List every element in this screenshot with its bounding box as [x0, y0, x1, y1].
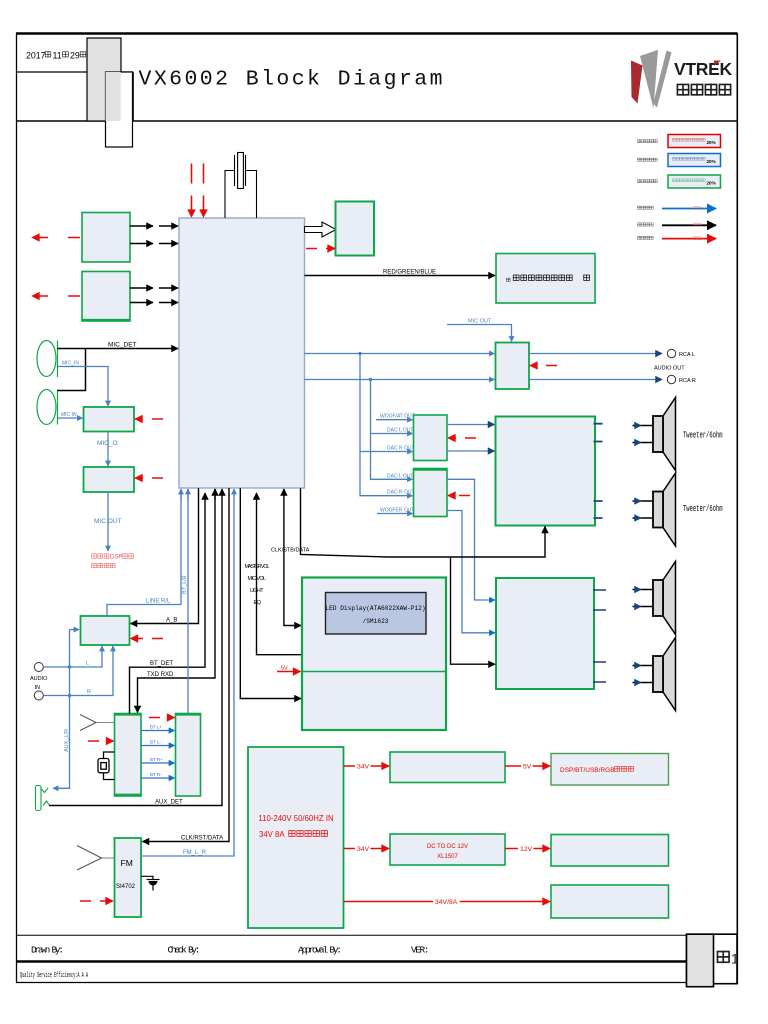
BT crystal [98, 752, 115, 780]
LCD display [326, 593, 427, 635]
left input box 2 [82, 272, 130, 322]
svg-text:IN: IN [35, 685, 41, 691]
svg-text:LED Display(ATA6022XAW-P12): LED Display(ATA6022XAW-P12) [325, 605, 425, 612]
svg-text:DAC R OUT: DAC R OUT [387, 490, 415, 496]
crystal X1 on top of main box [225, 153, 257, 219]
svg-text:20%: 20% [707, 181, 716, 186]
12V box [551, 835, 669, 867]
left input box 1 [82, 213, 130, 263]
5V supply box [390, 752, 505, 783]
svg-text:110-240V 50/60HZ IN: 110-240V 50/60HZ IN [258, 814, 333, 823]
svg-text:MIC OUT: MIC OUT [94, 518, 121, 525]
legend: standard module row [637, 180, 657, 183]
footer lines [16, 935, 687, 982]
amplifier box 1 [496, 417, 596, 526]
svg-text:CLK/STB/DATA: CLK/STB/DATA [271, 548, 310, 554]
keyboard wires to LED board [240, 488, 301, 699]
FM_L_R wire [141, 489, 234, 856]
svg-text:LINE R/L: LINE R/L [146, 599, 171, 605]
power supply board [248, 747, 344, 928]
svg-text:WOOF/AT OUT: WOOF/AT OUT [380, 414, 415, 420]
34V wire 1 [344, 765, 390, 767]
microphone 1 [37, 341, 58, 378]
date text 2017-11-29 [26, 51, 46, 61]
svg-text:DAC L OUT: DAC L OUT [387, 473, 413, 479]
svg-text:DC TO DC 12V: DC TO DC 12V [427, 844, 468, 850]
svg-text:FM_L_R: FM_L_R [183, 850, 207, 856]
legend: audio signal arrow [637, 206, 653, 209]
svg-text:RED/GREEN/BLUE: RED/GREEN/BLUE [383, 270, 436, 276]
aux trunk down to jack [70, 629, 80, 631]
svg-text:MIC_DET: MIC_DET [108, 342, 137, 349]
RCA output wires [529, 354, 662, 380]
svg-text:BT R+: BT R+ [150, 757, 163, 762]
svg-text:11: 11 [53, 51, 62, 61]
CLK/STB/DATA wire [301, 488, 496, 664]
svg-text:34V: 34V [357, 846, 370, 853]
svg-text:EQ: EQ [254, 600, 262, 606]
34V wire 2 [344, 848, 390, 850]
svg-text:BT R-: BT R- [150, 772, 162, 777]
footer texts [31, 945, 430, 956]
5V wire [505, 765, 550, 767]
svg-text:L: L [86, 661, 89, 667]
svg-text:29: 29 [70, 51, 80, 61]
main MCU box [179, 218, 305, 488]
svg-text:BT L+: BT L+ [150, 725, 162, 730]
DSP power box [551, 754, 669, 786]
lamp box [496, 254, 595, 304]
svg-text:VER:: VER: [411, 945, 430, 956]
MIC_DET wire [58, 348, 179, 350]
svg-text:Tweeter/6ohm: Tweeter/6ohm [683, 431, 723, 441]
BT_DET wire [130, 493, 206, 714]
speaker 1 [633, 398, 676, 471]
BT_L/R wire [187, 489, 189, 714]
svg-text:5V: 5V [281, 666, 288, 672]
12V wire [505, 848, 550, 850]
legend: data signal arrow [637, 223, 653, 226]
BT antenna [80, 715, 115, 731]
AUX_DET wire [49, 489, 222, 806]
svg-text:Approval By:: Approval By: [298, 945, 342, 956]
amplifier box 2 [496, 578, 594, 689]
microphone 2 [37, 390, 58, 425]
data arrows box1 to MCU [130, 226, 178, 303]
LINE box [81, 616, 130, 645]
DAC trunk wires [360, 354, 413, 514]
BT pair box [176, 714, 201, 797]
svg-text:MIC OUT: MIC OUT [468, 319, 492, 325]
RED/GREEN/BLUE wire to lamp box [305, 275, 496, 277]
svg-text:TXD RXD: TXD RXD [147, 672, 174, 678]
svg-text:LIGHT: LIGHT [250, 588, 264, 594]
LINE blue pin [180, 489, 182, 605]
svg-text:DSP/BT/USB/RGB: DSP/BT/USB/RGB [560, 767, 615, 774]
svg-text:/SM1623: /SM1623 [363, 618, 389, 625]
svg-text:34V: 34V [357, 764, 370, 771]
svg-text:RCA L: RCA L [679, 352, 695, 358]
A_B wire [131, 488, 199, 624]
svg-text:AUDIO: AUDIO [30, 676, 48, 682]
amp1 blue output stubs [594, 424, 603, 518]
svg-text:5V: 5V [523, 764, 532, 771]
svg-text:FM: FM [121, 858, 133, 868]
svg-text:20%: 20% [707, 159, 716, 164]
page cell [687, 934, 738, 984]
svg-text:BT_L/R: BT_L/R [182, 575, 188, 594]
logo chinese 巨大集团 [677, 84, 730, 94]
speaker 3 [633, 562, 676, 635]
MIC_IN wire [58, 367, 109, 407]
svg-text:BT_DET: BT_DET [150, 661, 173, 667]
CLK/RST/DATA wire [143, 488, 230, 842]
svg-text:DAC L OUT: DAC L OUT [387, 427, 413, 433]
svg-text:R: R [87, 689, 91, 695]
legend: new module row [637, 140, 657, 143]
FM bypass capacitor [141, 876, 160, 890]
svg-text:SI4702: SI4702 [116, 884, 136, 890]
LINE R/L wire [107, 605, 181, 617]
FM antenna [77, 846, 115, 871]
speaker 4 [633, 638, 676, 711]
BT module box [115, 714, 142, 797]
DAC1 outputs to amp1 [447, 425, 495, 452]
svg-text:Drawn By:: Drawn By: [31, 945, 64, 956]
5V red arrow into LED board [277, 671, 301, 673]
svg-text:MIC_IN: MIC_IN [62, 361, 79, 367]
svg-text:MIC IN: MIC IN [61, 412, 77, 418]
LED display board [302, 578, 446, 731]
svg-text:VTREK: VTREK [674, 59, 732, 79]
svg-text:RCA R: RCA R [679, 378, 696, 384]
svg-text:DAC R OUT: DAC R OUT [387, 446, 415, 452]
TXD RXD wire [138, 489, 216, 713]
legend: developing module row [637, 158, 657, 161]
red note text [92, 554, 109, 558]
audio in wires L and R [43, 646, 113, 696]
svg-text:1: 1 [731, 951, 739, 967]
MIC OUT wire into mixer [447, 325, 512, 342]
svg-text:Check By:: Check By: [168, 945, 201, 956]
svg-text:12V: 12V [520, 846, 533, 853]
svg-text:Tweeter/6ohm: Tweeter/6ohm [683, 504, 723, 514]
svg-text:BT L-: BT L- [150, 740, 161, 745]
mic preamp box 1 [84, 407, 135, 432]
FM module box [115, 838, 142, 917]
svg-text:2017: 2017 [26, 51, 46, 61]
svg-text:20%: 20% [707, 140, 716, 145]
svg-text:AUX_DET: AUX_DET [155, 800, 183, 806]
hollow arrow to green box [305, 222, 337, 237]
svg-text:DSP: DSP [110, 555, 122, 561]
legend: power signal arrow [637, 236, 653, 239]
DAC2 outputs down to amp2 [447, 479, 495, 633]
svg-text:MIC VOL: MIC VOL [248, 576, 267, 582]
mixer box [496, 343, 530, 390]
DC-DC box [390, 834, 505, 865]
VTREK logo mark [631, 50, 672, 109]
red dashed arrows out left [32, 238, 80, 297]
mic preamp box 2 [84, 467, 135, 492]
svg-text:MIC_O: MIC_O [97, 440, 118, 447]
svg-text:Quality Service Efficiency:A A: Quality Service Efficiency:A A A [20, 972, 88, 980]
DAC box 2 [414, 469, 448, 517]
title block overlap rects [87, 38, 121, 121]
svg-text:XL1507: XL1507 [437, 854, 458, 860]
svg-text:A_B: A_B [166, 618, 177, 624]
34V/8A wire [344, 901, 551, 903]
BT audio arrows [141, 731, 175, 779]
FM red dashed arrow [80, 900, 113, 902]
svg-text:WOOFER OUT: WOOFER OUT [380, 508, 414, 514]
headphone jack [36, 786, 50, 811]
AUDIO IN jacks [34, 663, 43, 672]
svg-text:34V/8A: 34V/8A [435, 899, 458, 906]
svg-text:34V 8A: 34V 8A [259, 830, 285, 839]
svg-text:MASTER VOL: MASTER VOL [245, 564, 270, 570]
audio wires MCU to mixer [305, 354, 495, 380]
red dashed arrows into main box top [192, 164, 204, 218]
34V box [551, 885, 669, 918]
RCA jacks [667, 349, 675, 357]
speaker 2 [633, 473, 676, 546]
svg-text:AUDIO OUT: AUDIO OUT [654, 366, 685, 372]
green box top right [336, 202, 375, 256]
DAC box 1 [414, 415, 448, 461]
svg-text:CLK/RST/DATA: CLK/RST/DATA [181, 836, 223, 842]
svg-text:AUX_L/R: AUX_L/R [64, 729, 70, 752]
